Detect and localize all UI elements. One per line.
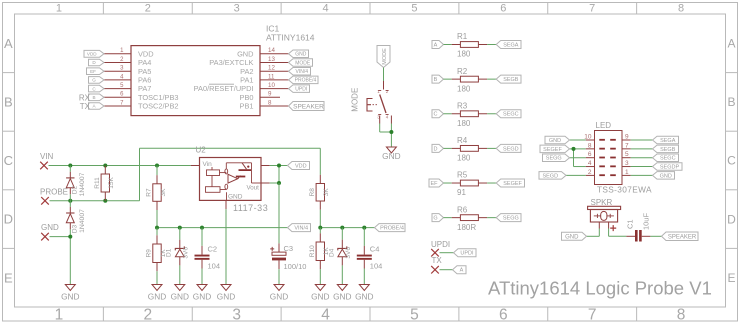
wire C to R3 [444, 113, 461, 115]
svg-text:SEGD: SEGD [503, 146, 519, 152]
svg-text:EF: EF [90, 69, 96, 74]
resistor R10 1K [309, 228, 330, 285]
IC1 right pin names [194, 49, 254, 110]
svg-text:PA4: PA4 [138, 58, 151, 67]
svg-text:G: G [433, 216, 437, 222]
svg-text:2: 2 [588, 169, 592, 176]
junction rail-C4 [362, 226, 366, 230]
svg-text:MODE: MODE [295, 60, 311, 66]
frame row ticks [3, 73, 738, 249]
svg-text:R6: R6 [457, 205, 468, 214]
LED pin marks [599, 139, 616, 176]
ground below MODE switch [382, 147, 400, 161]
svg-text:SEGA: SEGA [660, 138, 676, 144]
wire MODE flag to switch [383, 68, 385, 90]
LED display TSS-307EWA body [595, 121, 652, 194]
svg-text:5: 5 [411, 2, 417, 14]
svg-text:3V6: 3V6 [183, 247, 190, 259]
svg-text:Vin: Vin [203, 161, 213, 168]
capacitor C4 104 [357, 228, 383, 285]
svg-text:GND: GND [382, 151, 400, 161]
junction rail-R10 [318, 226, 322, 230]
junction rail-D4 [340, 226, 344, 230]
pin UPDI unconnected [431, 249, 439, 257]
svg-text:PA3/EXTCLK: PA3/EXTCLK [209, 58, 253, 67]
net flag A TX [453, 266, 467, 274]
wire SPKR right pin to C1 [609, 222, 635, 236]
svg-text:R3: R3 [457, 101, 468, 110]
svg-text:D: D [434, 146, 438, 152]
svg-text:12: 12 [268, 65, 275, 72]
wire PROBE up and over to R8 [140, 148, 321, 201]
svg-text:C4: C4 [370, 245, 380, 254]
svg-text:GND: GND [237, 49, 253, 58]
wire C1 to SPEAKER [642, 235, 662, 237]
net flag A pin7 [89, 103, 105, 110]
wire VIN/4 rail [157, 227, 288, 229]
svg-text:3: 3 [234, 2, 240, 14]
svg-text:SEGEF: SEGEF [503, 181, 522, 187]
net flag EF pin3 [87, 68, 105, 75]
svg-text:UPDI: UPDI [431, 240, 450, 249]
svg-text:180R: 180R [457, 223, 476, 232]
svg-text:GND: GND [41, 223, 59, 232]
net flag GND speaker [562, 232, 587, 240]
svg-text:GND: GND [217, 292, 235, 302]
wire PROBE/4 rail [320, 227, 374, 229]
svg-text:6: 6 [588, 151, 592, 158]
svg-text:9: 9 [625, 134, 629, 141]
frame row labels [4, 36, 737, 285]
wire R5 to SEGEF [478, 182, 496, 184]
svg-text:PA5: PA5 [138, 67, 151, 76]
net flag VIN/4 [288, 224, 311, 232]
svg-text:A: A [727, 37, 735, 51]
svg-text:1N4007: 1N4007 [79, 209, 86, 233]
net flag C [432, 110, 444, 118]
svg-text:1: 1 [625, 169, 629, 176]
svg-text:A: A [4, 36, 13, 51]
ground below D1 [175, 285, 185, 291]
svg-text:2: 2 [144, 307, 153, 324]
svg-text:7: 7 [588, 307, 597, 324]
svg-text:C: C [4, 153, 13, 168]
svg-text:R4: R4 [457, 136, 468, 145]
svg-text:SPEAKER: SPEAKER [293, 103, 324, 110]
svg-text:R10: R10 [309, 245, 316, 257]
net flag G pin4 [89, 77, 105, 84]
junction Vout lower [277, 181, 281, 185]
svg-text:Vout: Vout [247, 184, 260, 191]
svg-text:SPKR: SPKR [591, 198, 613, 207]
svg-text:C2: C2 [208, 245, 218, 254]
IC1 left pin numbers 1-7 [120, 48, 124, 106]
net flag SEGC [496, 110, 521, 118]
svg-text:8: 8 [677, 307, 686, 324]
op-amp U1 IC1 ATTINY1614 body [131, 24, 315, 116]
wire LED to SEGC [622, 157, 653, 159]
resistor R11 15K [94, 166, 115, 201]
junction GND-D3 [68, 235, 72, 239]
LED left pin numbers [584, 134, 592, 176]
svg-text:1117-33: 1117-33 [233, 203, 268, 213]
svg-text:8: 8 [588, 142, 592, 149]
svg-text:R7: R7 [146, 188, 153, 197]
net flag SEGDP LED right [653, 163, 683, 171]
svg-text:6: 6 [499, 307, 508, 324]
svg-text:R9: R9 [146, 249, 153, 258]
resistor R5 [457, 171, 478, 198]
wire SEGEF to LED pin8 [570, 148, 595, 150]
net flag SEGA LED right [653, 136, 679, 144]
wire R6 to SEGG [478, 217, 496, 219]
svg-text:3V6: 3V6 [345, 247, 352, 259]
svg-text:104: 104 [370, 262, 383, 271]
net flag SEGD [496, 144, 521, 152]
wire U2 Vout to VDD [261, 166, 288, 184]
svg-text:SEGG: SEGG [546, 156, 562, 162]
svg-text:C: C [434, 112, 438, 118]
svg-text:D3: D3 [72, 224, 79, 233]
svg-text:VDD: VDD [138, 49, 154, 58]
svg-text:8: 8 [268, 99, 272, 106]
net flag PROBE/4 [375, 224, 406, 232]
svg-text:GND: GND [311, 292, 329, 302]
IC1 left pin names [138, 49, 179, 110]
svg-text:D1: D1 [166, 248, 173, 257]
label RX TX [79, 93, 91, 111]
svg-text:R2: R2 [457, 67, 468, 76]
net flag SEGG [496, 214, 521, 222]
switch S1 MODE [367, 89, 389, 120]
svg-text:91: 91 [457, 188, 466, 197]
wire A to R1 [444, 44, 461, 46]
svg-text:PA7: PA7 [138, 84, 151, 93]
net flag UPDI pin10 [289, 85, 310, 93]
net flag MODE pin13 [289, 59, 313, 67]
wire LED to SEGB [622, 148, 653, 150]
IC1 left pin wires [104, 54, 131, 106]
svg-text:B: B [434, 77, 438, 83]
svg-text:7: 7 [589, 2, 595, 14]
svg-text:GND: GND [333, 292, 351, 302]
wire LED to SEGA [622, 139, 653, 141]
wire EF to R5 [444, 182, 461, 184]
ground below C3 [274, 285, 284, 291]
svg-text:C3: C3 [284, 244, 294, 253]
net flag SPEAKER pin8 [289, 102, 325, 111]
svg-text:MODE: MODE [382, 48, 388, 65]
svg-text:C1: C1 [626, 219, 635, 229]
svg-text:LED: LED [596, 121, 612, 130]
svg-text:SEGB: SEGB [503, 77, 519, 83]
svg-text:180: 180 [457, 84, 471, 93]
wire R1 to SEGA [478, 44, 496, 46]
junction rail-R7 [155, 226, 159, 230]
svg-text:9: 9 [268, 91, 272, 98]
resistor R9 1K [146, 228, 167, 285]
svg-text:B: B [92, 95, 95, 100]
svg-text:2: 2 [145, 2, 151, 14]
net flag PROBE/4 pin11 [289, 76, 319, 84]
svg-text:D: D [4, 212, 13, 227]
svg-text:D: D [727, 212, 736, 226]
svg-text:SEGB: SEGB [660, 147, 676, 153]
wire switch to ground [380, 116, 392, 147]
svg-text:5: 5 [410, 307, 419, 324]
net flag B pin6 [89, 94, 105, 101]
pin VIN unconnected [40, 162, 48, 170]
net flag VDD [288, 162, 310, 170]
svg-text:B: B [727, 95, 735, 109]
svg-text:1N4007: 1N4007 [79, 172, 86, 196]
svg-text:E: E [727, 271, 735, 285]
svg-text:14: 14 [268, 47, 275, 54]
wire SPKR left pin to GND [587, 222, 600, 236]
frame column ticks [103, 3, 636, 322]
wire PROBE rail [50, 200, 140, 202]
svg-text:D4: D4 [329, 248, 336, 257]
resistor R1 [457, 32, 478, 59]
svg-text:GND: GND [171, 292, 189, 302]
wire U2 GND down [225, 200, 227, 284]
resistor R7 3K [146, 166, 167, 228]
svg-text:R1: R1 [457, 32, 468, 41]
svg-text:TOSC1/PB3: TOSC1/PB3 [138, 93, 179, 102]
capacitor C2 104 [195, 228, 221, 285]
resistor R4 [457, 136, 478, 163]
zener diode D1 3V6 [166, 228, 190, 285]
svg-text:4: 4 [588, 160, 592, 167]
svg-text:PB0: PB0 [240, 93, 254, 102]
svg-text:TOSC2/PB2: TOSC2/PB2 [138, 102, 179, 111]
svg-text:C: C [727, 154, 736, 168]
svg-text:15K: 15K [108, 177, 115, 189]
svg-text:U2: U2 [196, 146, 207, 155]
ground below U2 [221, 285, 231, 291]
svg-text:GND: GND [355, 292, 373, 302]
wire UPDI pin to flag [440, 252, 454, 254]
net flag SEGB [496, 75, 521, 83]
ground below D4 [337, 285, 347, 291]
svg-text:PA6: PA6 [138, 76, 151, 85]
wire VDD to C3 [278, 183, 280, 252]
svg-text:PA1: PA1 [240, 76, 253, 85]
zener diode D4 3V6 [329, 228, 352, 285]
svg-text:TX: TX [432, 256, 443, 265]
svg-text:1: 1 [56, 2, 62, 14]
diode D3 1N4007 [66, 201, 86, 285]
junction VIN-R11 [103, 164, 107, 168]
svg-text:PROBE/4: PROBE/4 [295, 78, 317, 84]
junction rail-C2 [200, 226, 204, 230]
svg-text:D2: D2 [72, 185, 79, 194]
svg-text:6: 6 [500, 2, 506, 14]
svg-text:1: 1 [55, 307, 64, 324]
wire R4 to SEGD [478, 147, 496, 149]
wire G to R6 [444, 217, 461, 219]
junction SEGEF branch [572, 147, 576, 151]
svg-text:GND: GND [148, 292, 166, 302]
resistor R2 [457, 67, 478, 94]
svg-text:3K: 3K [323, 188, 330, 197]
svg-text:13: 13 [268, 56, 275, 63]
net flag GND LED pin10 [545, 136, 570, 144]
svg-text:MODE: MODE [351, 88, 360, 112]
wire SEGEF branch to LED pin4 [574, 149, 595, 167]
svg-text:SEGEF: SEGEF [543, 147, 562, 153]
svg-text:A: A [460, 268, 464, 274]
wire LED to SEGDP [622, 166, 653, 168]
net flag SEGC LED right [653, 154, 679, 162]
svg-text:4: 4 [323, 2, 329, 14]
svg-text:RX: RX [79, 93, 91, 102]
IC1 right pin numbers 14-8 [268, 47, 275, 106]
svg-text:SEGA: SEGA [503, 42, 519, 48]
net flag SEGG LED pin6 [543, 154, 570, 162]
svg-text:SEGC: SEGC [660, 156, 676, 162]
net flag D pin2 [89, 59, 105, 66]
ground below R9 [152, 285, 162, 291]
svg-text:3: 3 [625, 160, 629, 167]
svg-text:10uF: 10uF [642, 213, 651, 231]
svg-text:5: 5 [625, 151, 629, 158]
wire GND pin to D3 net [50, 236, 71, 238]
ground below D3 [65, 285, 75, 291]
ground below C2 [197, 285, 207, 291]
resistor R3 [457, 101, 478, 128]
junction PROBE-D2 [68, 199, 72, 203]
net flag VIN/4 pin12 [289, 67, 311, 75]
pin GND unconnected [41, 233, 49, 241]
wire B to R2 [444, 78, 461, 80]
net flag B [432, 75, 444, 83]
svg-text:SPEAKER: SPEAKER [668, 234, 697, 240]
svg-text:ATTINY1614: ATTINY1614 [266, 33, 315, 43]
svg-text:VIN/4: VIN/4 [295, 69, 308, 75]
svg-text:180: 180 [457, 154, 471, 163]
wire SEGD to LED pin2 [566, 174, 595, 176]
svg-text:ATtiny1614 Logic Probe V1: ATtiny1614 Logic Probe V1 [488, 277, 712, 298]
junction Vout upper [277, 164, 281, 168]
svg-text:GND: GND [565, 234, 579, 240]
svg-text:R8: R8 [309, 188, 316, 197]
wire LED to GND [622, 174, 653, 176]
net flag SEGD LED pin2 [539, 172, 566, 180]
junction PROBE-R11 [103, 199, 107, 203]
net flag SEGB LED right [653, 145, 679, 153]
svg-text:GND: GND [193, 292, 211, 302]
svg-text:7: 7 [625, 142, 629, 149]
svg-text:VDD: VDD [87, 51, 97, 56]
net flag GND LED right [653, 172, 675, 180]
svg-text:100/10: 100/10 [284, 262, 307, 271]
net flag MODE vertical [377, 46, 390, 68]
U2 internal symbol [203, 161, 262, 201]
polarity + mark [610, 225, 616, 231]
svg-text:SEGC: SEGC [503, 112, 519, 118]
svg-text:PB1: PB1 [240, 102, 254, 111]
svg-text:E: E [4, 270, 13, 285]
svg-text:104: 104 [208, 262, 221, 271]
svg-text:SEGDP: SEGDP [660, 165, 680, 171]
wire D to R4 [444, 147, 461, 149]
junction rail-D1 [178, 226, 182, 230]
net flag SEGEF [496, 179, 524, 187]
svg-text:SEGD: SEGD [542, 173, 558, 179]
svg-text:4: 4 [321, 307, 330, 324]
svg-text:G: G [92, 78, 96, 83]
svg-text:180: 180 [457, 119, 471, 128]
ground below C4 [359, 285, 369, 291]
svg-text:R5: R5 [457, 171, 468, 180]
resistor R6 [457, 205, 478, 232]
ground below R10 [315, 285, 325, 291]
net flag SEGEF LED pin8 [540, 145, 570, 153]
svg-text:GND: GND [295, 52, 307, 58]
pin TX unconnected [431, 266, 439, 274]
wire VIN rail [49, 165, 200, 167]
net flag UPDI [454, 249, 477, 257]
LED right pin numbers [625, 134, 629, 176]
svg-text:GND: GND [549, 138, 561, 144]
svg-text:EF: EF [430, 181, 438, 187]
net flag EF [429, 179, 444, 187]
svg-text:B: B [4, 95, 13, 110]
IC1 right pin wires [260, 54, 289, 106]
net flag GND pin14 [289, 50, 309, 58]
wire GND to LED pin10 [570, 139, 595, 141]
svg-text:TSS-307EWA: TSS-307EWA [597, 184, 652, 194]
svg-text:3: 3 [232, 307, 241, 324]
junction switch ground [389, 130, 393, 134]
pin PROBE unconnected [41, 197, 49, 205]
resistor R8 3K [309, 184, 330, 202]
junction VIN-D2 [68, 164, 72, 168]
diode D2 1N4007 [66, 166, 86, 201]
capacitor C3 100/10 [270, 244, 306, 271]
net flag D [432, 144, 444, 152]
net flag SEGA [496, 41, 521, 49]
voltage regulator U2 1117-33 body [196, 146, 269, 214]
wire SEGG to LED pin6 [570, 157, 595, 159]
svg-text:11: 11 [268, 73, 275, 80]
svg-text:R11: R11 [94, 177, 101, 189]
speaker SPKR body [588, 198, 621, 222]
svg-text:GND: GND [228, 194, 243, 201]
svg-text:8: 8 [678, 2, 684, 14]
svg-text:GND: GND [660, 173, 672, 179]
svg-text:VIN/4: VIN/4 [294, 226, 308, 232]
wire R8 to PROBE/4 rail [319, 201, 321, 228]
svg-text:SEGG: SEGG [503, 216, 519, 222]
svg-text:PROBE: PROBE [40, 188, 68, 197]
svg-text:PROBE/4: PROBE/4 [380, 226, 404, 232]
svg-text:VIN: VIN [40, 152, 54, 161]
svg-text:TX: TX [80, 102, 91, 111]
svg-text:3K: 3K [160, 188, 167, 197]
svg-text:UPDI: UPDI [295, 86, 307, 92]
svg-text:GND: GND [61, 292, 79, 302]
svg-text:A: A [434, 42, 438, 48]
wire R2 to SEGB [478, 78, 496, 80]
wire C3 to ground [278, 260, 280, 284]
svg-text:UPDI: UPDI [460, 251, 474, 257]
net flag A [432, 41, 444, 49]
net flag C pin5 [89, 85, 105, 92]
svg-text:PA0/RESET/UPDI: PA0/RESET/UPDI [194, 84, 254, 93]
capacitor C1 10uF [626, 213, 651, 242]
